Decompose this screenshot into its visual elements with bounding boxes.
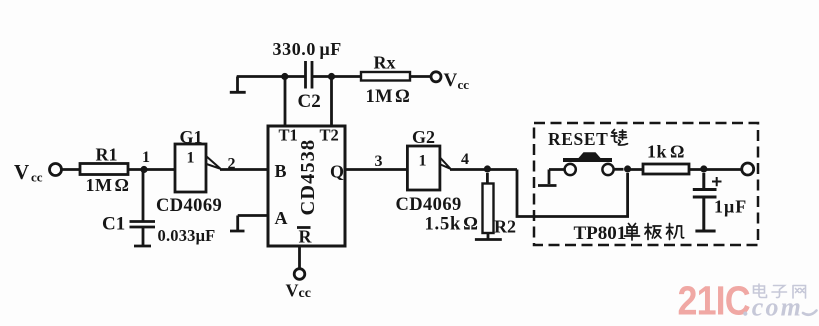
svg-text:V: V	[444, 70, 458, 91]
svg-text:1: 1	[187, 150, 195, 167]
svg-text:G2: G2	[412, 127, 435, 147]
svg-text:R: R	[299, 227, 313, 247]
svg-text:1: 1	[142, 149, 150, 166]
svg-text:0.033μF: 0.033μF	[158, 226, 216, 245]
svg-text:V: V	[14, 160, 29, 184]
svg-text:2: 2	[228, 156, 236, 173]
svg-text:4: 4	[461, 151, 469, 168]
svg-text:T2: T2	[320, 126, 339, 145]
svg-text:B: B	[275, 161, 287, 181]
svg-text:330.0μF: 330.0μF	[273, 39, 342, 59]
svg-text:R1: R1	[96, 145, 118, 165]
svg-text:G1: G1	[180, 127, 203, 147]
svg-text:1: 1	[419, 153, 427, 170]
svg-text:T1: T1	[279, 126, 298, 145]
svg-text:A: A	[275, 208, 288, 228]
svg-text:CD4069: CD4069	[156, 196, 222, 216]
svg-text:cc: cc	[458, 77, 470, 92]
svg-text:21IC: 21IC	[678, 278, 750, 324]
svg-text:1μF: 1μF	[714, 197, 747, 217]
svg-text:cc: cc	[31, 170, 43, 185]
svg-text:1MΩ: 1MΩ	[366, 87, 411, 107]
svg-text:3: 3	[375, 153, 383, 170]
svg-text:R2: R2	[494, 217, 516, 237]
svg-text:CD4538: CD4538	[297, 139, 319, 216]
svg-text:1.5kΩ: 1.5kΩ	[425, 215, 479, 235]
svg-text:TP801: TP801	[574, 223, 627, 244]
svg-text:Vcc: Vcc	[286, 281, 311, 302]
svg-text:C2: C2	[298, 91, 321, 112]
svg-text:Rx: Rx	[374, 53, 396, 73]
svg-text:RESET: RESET	[548, 129, 608, 149]
svg-text:1kΩ: 1kΩ	[647, 142, 685, 162]
svg-text:C1: C1	[102, 214, 125, 235]
svg-text:Q: Q	[330, 162, 344, 182]
svg-text:CD4069: CD4069	[396, 195, 462, 215]
svg-text:1MΩ: 1MΩ	[86, 175, 130, 195]
svg-text:.com: .com	[743, 293, 803, 322]
